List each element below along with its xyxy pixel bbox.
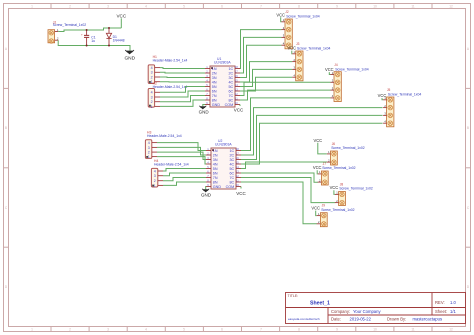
svg-text:2C: 2C [228, 72, 233, 76]
svg-text:Drawn By:: Drawn By: [387, 317, 406, 322]
wire U2 6C to T6 pin2 [241, 173, 318, 182]
svg-text:6N: 6N [212, 90, 217, 94]
svg-text:2: 2 [69, 328, 71, 332]
svg-text:11: 11 [411, 328, 415, 332]
svg-text:Header-Male-2.54_1x4: Header-Male-2.54_1x4 [153, 59, 188, 63]
screw terminal J3 [292, 42, 330, 81]
wire U2 1C to T3 pin4 [241, 98, 331, 151]
svg-text:2: 2 [148, 151, 150, 155]
svg-text:1: 1 [154, 184, 156, 188]
svg-text:4: 4 [151, 66, 153, 70]
wire H1.1 to U1 4N [160, 81, 205, 83]
svg-text:Screw_Terminal_1x02: Screw_Terminal_1x02 [331, 146, 364, 150]
svg-text:VCC: VCC [236, 191, 246, 196]
svg-text:1: 1 [31, 328, 33, 332]
svg-text:1N: 1N [212, 67, 217, 71]
screw terminal J6 [327, 142, 365, 165]
junction D1 bottom [108, 45, 110, 47]
wire U1 8C to T3 pin3 [240, 90, 331, 100]
svg-text:J4: J4 [334, 63, 338, 67]
svg-text:3C: 3C [229, 158, 234, 162]
svg-text:4C: 4C [228, 81, 233, 85]
svg-text:Screw_Terminal_1x02: Screw_Terminal_1x02 [322, 166, 355, 170]
wire H1.3 to U1 2N [160, 71, 205, 74]
svg-text:16: 16 [236, 156, 239, 160]
svg-text:16: 16 [235, 74, 238, 78]
svg-text:10: 10 [236, 183, 239, 187]
wire J1 pin1 to VCC rail [58, 28, 121, 32]
svg-text:7C: 7C [229, 176, 234, 180]
svg-text:GND: GND [199, 109, 210, 114]
wire U2 3C to T4 pin3 [241, 115, 383, 159]
wire J1 pin2 to GND rail [58, 40, 130, 50]
power VCC (U1 COM) [239, 105, 241, 107]
svg-text:Screw_Terminal_1x04: Screw_Terminal_1x04 [335, 67, 368, 71]
svg-text:5N: 5N [213, 167, 218, 171]
svg-text:9: 9 [336, 328, 338, 332]
svg-text:5: 5 [183, 5, 185, 9]
wire H3.3 to U2 2N [157, 147, 206, 155]
wire U2 8C to T8 pin2 [241, 182, 317, 224]
wire U2 5C to T5 pin2 [241, 162, 327, 169]
svg-text:Header-Male-2.54_1x4: Header-Male-2.54_1x4 [147, 134, 182, 138]
screw terminal J7 [318, 162, 356, 185]
header H2 [148, 81, 187, 108]
svg-text:VCC: VCC [330, 185, 339, 190]
svg-text:3N: 3N [213, 158, 218, 162]
svg-text:Screw_Terminal_1x02: Screw_Terminal_1x02 [321, 208, 354, 212]
wire H2.3 to U1 6N [160, 91, 205, 97]
svg-text:1C: 1C [229, 149, 234, 153]
svg-text:TITLE:: TITLE: [288, 294, 299, 298]
svg-text:VCC: VCC [276, 12, 285, 17]
svg-text:Header-Male-2.54_1x4: Header-Male-2.54_1x4 [153, 85, 188, 89]
svg-text:B: B [467, 126, 469, 130]
svg-text:GND: GND [201, 193, 212, 198]
wire U2 7C to T7 pin2 [241, 178, 335, 203]
svg-text:8: 8 [298, 328, 300, 332]
screw terminal J2 [282, 10, 320, 49]
wire H2.4 to U1 5N [160, 87, 205, 93]
svg-text:Screw_Terminal_1x02: Screw_Terminal_1x02 [53, 23, 86, 27]
svg-text:Sheet_1: Sheet_1 [310, 301, 330, 307]
svg-text:1/1: 1/1 [450, 309, 456, 314]
svg-text:3: 3 [107, 5, 109, 9]
svg-text:5: 5 [183, 328, 185, 332]
svg-text:3: 3 [151, 71, 153, 75]
svg-text:GND: GND [124, 56, 135, 62]
screw terminal J4 [331, 63, 369, 102]
svg-text:15: 15 [235, 79, 238, 83]
header H3 [145, 130, 181, 159]
svg-text:4: 4 [148, 141, 150, 145]
ground GND (U2) [205, 187, 207, 190]
svg-text:Screw_Terminal_1x04: Screw_Terminal_1x04 [297, 47, 330, 51]
svg-text:4N: 4N [213, 163, 218, 167]
ground GND (top-left) [125, 51, 134, 55]
svg-text:1N: 1N [213, 149, 218, 153]
svg-text:VCC: VCC [325, 67, 334, 72]
wire H2.1 to U1 8N [160, 100, 205, 106]
svg-text:J3: J3 [296, 42, 300, 46]
wire U1 2C to T1 pin3 [240, 37, 282, 73]
svg-text:8N: 8N [213, 181, 218, 185]
wire H3.4 to U2 1N [157, 143, 206, 151]
junction C1 top [86, 29, 88, 31]
IC U1 ULN2803A [205, 57, 240, 107]
svg-text:12: 12 [236, 174, 239, 178]
svg-text:11: 11 [235, 97, 238, 101]
svg-text:18: 18 [236, 147, 239, 151]
junction D1 top [108, 27, 110, 29]
diode D1 [106, 28, 124, 46]
svg-text:J5: J5 [387, 88, 391, 92]
svg-text:2: 2 [151, 75, 153, 79]
svg-text:Header-Male-2.54_1x4: Header-Male-2.54_1x4 [154, 163, 189, 167]
svg-text:7: 7 [260, 5, 262, 9]
svg-text:6C: 6C [228, 90, 233, 94]
svg-text:B: B [5, 126, 7, 130]
wire U2 2C to T4 pin2 [241, 108, 383, 155]
svg-text:4: 4 [145, 5, 147, 9]
svg-text:4: 4 [145, 328, 147, 332]
svg-text:7C: 7C [228, 94, 233, 98]
svg-text:VCC: VCC [378, 93, 387, 98]
svg-text:8C: 8C [229, 181, 234, 185]
svg-text:2N: 2N [213, 154, 218, 158]
svg-text:14: 14 [235, 83, 238, 87]
svg-text:Date:: Date: [331, 317, 341, 322]
junction C1 bottom [86, 45, 88, 47]
svg-text:5N: 5N [212, 85, 217, 89]
svg-text:1N4448: 1N4448 [113, 39, 125, 43]
wire H4.1 to U2 8N [163, 182, 206, 185]
svg-text:5C: 5C [228, 85, 233, 89]
svg-text:13: 13 [235, 88, 238, 92]
svg-text:J2: J2 [285, 10, 289, 14]
wire H4.4 to U2 5N [163, 169, 206, 172]
svg-text:3: 3 [107, 328, 109, 332]
svg-text:10: 10 [235, 101, 238, 105]
svg-text:VCC: VCC [313, 138, 322, 143]
svg-text:6N: 6N [213, 172, 218, 176]
svg-text:VCC: VCC [313, 165, 322, 170]
power VCC net flag (top-left) [116, 13, 126, 28]
svg-text:1C: 1C [228, 67, 233, 71]
svg-text:ULN2803A: ULN2803A [215, 143, 232, 147]
svg-text:Screw_Terminal_1x04: Screw_Terminal_1x04 [388, 93, 421, 97]
svg-text:6: 6 [221, 328, 223, 332]
svg-text:7N: 7N [213, 176, 218, 180]
screw terminal J1 [48, 20, 86, 43]
svg-text:15: 15 [236, 161, 239, 165]
wire H2.2 to U1 7N [160, 96, 205, 102]
svg-text:VCC: VCC [287, 46, 296, 51]
svg-text:Your Company: Your Company [353, 309, 381, 314]
wire H4.2 to U2 7N [163, 178, 206, 181]
svg-text:Sheet:: Sheet: [435, 309, 447, 314]
svg-text:+: + [81, 33, 83, 37]
svg-text:8C: 8C [228, 99, 233, 103]
svg-text:GND: GND [213, 185, 222, 189]
svg-text:3: 3 [154, 174, 156, 178]
svg-text:3N: 3N [212, 76, 217, 80]
svg-text:1: 1 [31, 5, 33, 9]
IC U2 ULN2803A [206, 139, 241, 189]
svg-text:12: 12 [449, 328, 453, 332]
svg-text:18: 18 [235, 65, 238, 69]
svg-text:Company:: Company: [331, 309, 350, 314]
svg-text:17: 17 [236, 152, 239, 156]
svg-text:5C: 5C [229, 167, 234, 171]
svg-text:13: 13 [236, 170, 239, 174]
svg-text:Screw_Terminal_1x02: Screw_Terminal_1x02 [339, 187, 372, 191]
screw terminal J9 [317, 204, 355, 227]
capacitor C1 [81, 30, 96, 46]
svg-text:4: 4 [151, 91, 153, 95]
svg-text:10: 10 [373, 328, 377, 332]
header H1 [148, 55, 187, 84]
wire H4.3 to U2 6N [163, 173, 206, 176]
svg-text:4: 4 [154, 169, 156, 173]
svg-text:2C: 2C [229, 154, 234, 158]
svg-text:12: 12 [449, 5, 453, 9]
header H4 [151, 159, 188, 188]
wire U1 1C to T1 pin2 [240, 30, 282, 69]
wire U1 6C to T2 pin4 [240, 77, 292, 91]
screw terminal J8 [335, 183, 373, 206]
svg-text:COM: COM [226, 185, 235, 189]
svg-text:2: 2 [151, 100, 153, 104]
svg-text:1u: 1u [91, 39, 95, 43]
wire U1 5C to T2 pin3 [240, 69, 292, 86]
svg-text:Screw_Terminal_1x04: Screw_Terminal_1x04 [286, 15, 319, 19]
wire H1.2 to U1 3N [160, 76, 205, 79]
svg-text:3: 3 [151, 95, 153, 99]
svg-text:9: 9 [336, 5, 338, 9]
wire U1 3C to T1 pin4 [240, 45, 282, 77]
svg-text:VCC: VCC [116, 13, 126, 18]
svg-text:12: 12 [235, 92, 238, 96]
svg-text:14: 14 [236, 165, 239, 169]
screw terminal J5 [383, 88, 421, 127]
wire H1.4 to U1 1N [160, 67, 205, 70]
svg-text:VCC: VCC [311, 206, 320, 211]
svg-text:VCC: VCC [234, 107, 244, 112]
svg-text:COM: COM [225, 103, 234, 107]
svg-text:ULN2803A: ULN2803A [214, 61, 231, 65]
svg-text:17: 17 [235, 70, 238, 74]
power VCC (U2 COM) [240, 187, 242, 189]
svg-text:mastercactapus: mastercactapus [413, 317, 443, 322]
wire H3.1 to U2 4N [157, 157, 206, 164]
svg-text:1: 1 [151, 105, 153, 109]
svg-text:GND: GND [212, 103, 221, 107]
svg-text:10: 10 [373, 5, 377, 9]
svg-text:11: 11 [411, 5, 415, 9]
svg-text:7: 7 [260, 328, 262, 332]
svg-text:1.0: 1.0 [450, 300, 456, 305]
svg-text:6C: 6C [229, 172, 234, 176]
wire H3.2 to U2 3N [157, 152, 206, 159]
svg-text:1: 1 [148, 155, 150, 159]
svg-text:3: 3 [148, 146, 150, 150]
svg-text:6: 6 [221, 5, 223, 9]
wire U1 4C to T2 pin2 [240, 62, 292, 82]
svg-text:2: 2 [69, 5, 71, 9]
svg-text:8: 8 [298, 5, 300, 9]
svg-text:2: 2 [154, 179, 156, 183]
title block [286, 293, 466, 324]
svg-text:REV:: REV: [435, 300, 445, 305]
svg-text:4C: 4C [229, 163, 234, 167]
wire U1 7C to T3 pin2 [240, 82, 331, 95]
svg-text:3C: 3C [228, 76, 233, 80]
wire U2 4C to T4 pin4 [241, 123, 383, 164]
ground GND (U1) [203, 105, 205, 107]
svg-text:4N: 4N [212, 81, 217, 85]
svg-text:2019-05-22: 2019-05-22 [350, 317, 372, 322]
svg-text:easyeda.com/editor/sch: easyeda.com/editor/sch [288, 317, 320, 321]
svg-text:2N: 2N [212, 72, 217, 76]
svg-text:7N: 7N [212, 94, 217, 98]
svg-text:8N: 8N [212, 99, 217, 103]
svg-text:11: 11 [236, 179, 239, 183]
